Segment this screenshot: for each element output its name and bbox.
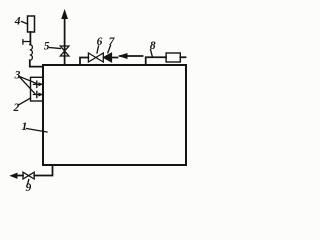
valve 9 (23, 172, 34, 179)
regulator 4 stem (29, 32, 31, 45)
label 2 leader (19, 98, 31, 105)
distributor box 2 (31, 77, 44, 101)
svg-text:3: 3 (14, 69, 21, 81)
pipe from coil to vessel (30, 60, 43, 66)
valve 5 (60, 46, 69, 56)
check valve 7 (103, 53, 111, 62)
pipe to valves 6-7 (80, 58, 118, 66)
label 9 leader (28, 180, 29, 185)
vent pipe (64, 14, 66, 65)
coil (30, 45, 33, 61)
label 6 leader (97, 46, 99, 53)
regulator 4 body (28, 16, 35, 32)
inlet pipe 8 (146, 57, 186, 65)
svg-text:7: 7 (109, 36, 116, 48)
nozzle A (34, 81, 40, 87)
svg-text:8: 8 (150, 40, 156, 52)
vent arrow (62, 11, 67, 19)
label 5 leader (50, 48, 61, 49)
drain pipe (14, 165, 53, 175)
valve 6 (88, 53, 103, 62)
orifice 8 (166, 53, 180, 62)
vessel 1 (43, 65, 186, 165)
svg-text:9: 9 (26, 182, 32, 194)
regulator 4 handle (23, 40, 31, 44)
label 8 leader (151, 50, 153, 57)
drain arrow (11, 173, 17, 178)
inlet flow arrow (120, 55, 143, 57)
svg-text:1: 1 (22, 121, 28, 133)
nozzle B (34, 91, 40, 97)
svg-text:5: 5 (44, 41, 50, 53)
svg-text:6: 6 (97, 36, 103, 48)
svg-text:2: 2 (13, 102, 20, 114)
svg-text:4: 4 (14, 16, 21, 28)
label 3 leaders (20, 77, 37, 94)
label 7 leader (108, 46, 111, 53)
label 1 leader (27, 129, 48, 133)
label 4 leader (22, 22, 28, 25)
